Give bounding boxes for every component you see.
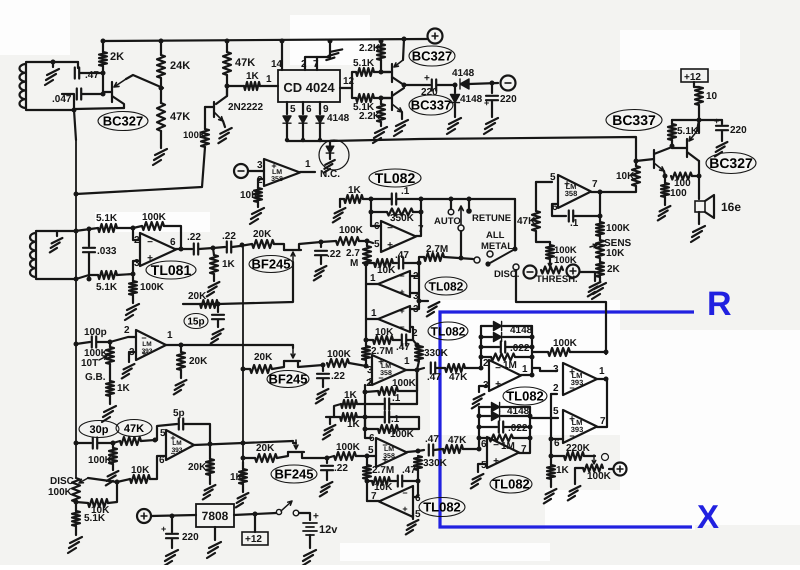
label BC337 Q4 [409,95,453,115]
wire [357,403,365,405]
wire [580,272,595,281]
wire [479,386,489,392]
wire [160,78,162,103]
svg-text:100K: 100K [88,455,113,466]
svg-text:5p: 5p [173,408,185,419]
resistor 10K [374,259,393,267]
capacitor .1 [569,211,573,222]
svg-text:1K: 1K [117,383,131,394]
svg-text:20K: 20K [188,462,207,473]
wire comparator output rail [597,380,607,427]
junction [74,500,79,505]
terminal + [614,463,627,476]
resistor 350K [387,209,413,216]
wire left vertical bus [75,140,77,478]
svg-text:1K: 1K [344,390,358,401]
wire audio feed to amp [330,137,636,161]
junction [364,262,369,267]
wire [226,75,228,96]
svg-text:2.2K: 2.2K [359,43,381,54]
resistor 5.1K [356,68,374,76]
wire [329,417,331,424]
junction [241,367,246,372]
wire [514,199,516,247]
svg-text:TL081: TL081 [151,262,192,278]
svg-text:358: 358 [565,189,578,198]
ground [472,394,485,408]
svg-text:2: 2 [301,59,307,70]
wire [478,407,480,449]
wire [334,404,341,417]
svg-text:7: 7 [592,179,598,190]
svg-text:20K: 20K [254,352,273,363]
wire [326,471,328,480]
svg-text:CD 4024: CD 4024 [283,80,335,95]
terminal circle [602,454,609,461]
wire to comparator rail [516,270,606,354]
wire to LM393 [530,417,558,419]
svg-text:BC327: BC327 [709,155,753,171]
resistor 5.1K [72,511,80,526]
wire [243,457,255,459]
wire [463,448,479,450]
wire [419,257,424,263]
wire [366,339,373,341]
junction [402,37,407,42]
wire [531,326,533,375]
junction [530,345,535,350]
svg-text:LM: LM [381,363,391,370]
wire [397,198,421,200]
wire [321,241,336,242]
diode 4148 [451,95,460,103]
wire [599,258,601,262]
diode 4148 [494,322,502,331]
label TL082 ellipse [425,277,467,295]
wire [234,513,276,515]
junction [241,441,246,446]
IC CD4024 [278,70,340,102]
wire [160,41,162,55]
wire [141,440,155,441]
resistor 47K [120,437,141,445]
wire [551,438,563,440]
junction [318,138,322,142]
svg-text:3: 3 [134,258,140,269]
junction [379,70,384,75]
svg-text:+12: +12 [245,534,262,545]
junction bus row1 [240,243,245,248]
circled diode [319,140,349,170]
resistor 100K [327,359,349,367]
junction [87,277,92,282]
ground [715,142,728,156]
svg-text:+: + [142,349,147,358]
wire [319,124,321,141]
capacitor .47 [398,476,402,487]
wire [600,186,636,192]
svg-text:+: + [714,116,719,126]
wire [183,303,200,305]
transistor Q3 BC327 [391,64,393,82]
wire [570,351,606,353]
junction [379,39,384,44]
wire [437,84,455,86]
svg-text:5: 5 [368,445,374,456]
terminal battery + [428,29,443,44]
svg-text:.47: .47 [396,342,410,353]
junction [402,83,407,88]
svg-text:1: 1 [266,74,272,85]
capacitor .022 [501,342,505,353]
capacitor 5p [179,419,183,430]
svg-text:.22: .22 [327,249,341,260]
svg-text:100K: 100K [606,223,631,234]
capacitor 220uF [166,534,178,538]
junction [225,39,230,44]
junction [131,272,136,277]
junction [416,449,421,454]
svg-text:G.B.: G.B. [85,372,106,383]
resistor 20K [255,454,277,462]
terminal THRESH + [567,265,580,278]
svg-text:5: 5 [290,104,296,115]
capacitor .033 [83,248,95,252]
wire pin5 [286,102,288,114]
junction [477,436,482,441]
junction [325,456,330,461]
svg-text:−: − [147,237,153,248]
wire [371,199,381,226]
svg-text:47K: 47K [448,435,467,446]
junction [153,438,158,443]
svg-text:METAL: METAL [481,241,513,252]
svg-text:+: + [313,511,319,522]
wire [112,464,114,470]
wire [599,236,601,240]
terminal THRESH - [524,266,537,279]
svg-text:TL082: TL082 [506,389,544,404]
wire [340,198,344,200]
resistor 1K [547,465,555,479]
svg-text:100K: 100K [48,487,73,498]
ground [153,149,167,165]
wire [171,516,173,532]
wire [381,71,392,73]
wire right rail [418,263,420,301]
svg-text:1: 1 [371,308,377,319]
resistor 47K [157,103,165,131]
junction [530,335,535,340]
junction [663,174,668,179]
wire [366,283,378,285]
wire [204,107,206,129]
wire [194,443,243,445]
op-amp U2A LM358 [264,159,300,186]
svg-text:5.1K: 5.1K [96,213,118,224]
junction [365,454,370,459]
wire [609,468,613,470]
wire [535,182,537,211]
svg-text:1: 1 [305,159,311,170]
wire [329,154,331,159]
ground [320,482,333,496]
wire [454,104,456,117]
ground [164,550,178,566]
wire [380,122,382,126]
wire [636,159,654,161]
capacitor 220uF [716,126,728,130]
svg-text:−: − [495,363,501,374]
wire [664,197,666,205]
junction [101,92,106,97]
capacitor .22 [194,244,198,255]
ground [102,406,116,422]
wire [597,378,606,380]
junction [477,425,482,430]
ground [471,474,484,488]
potentiometer 100K [583,465,603,472]
wire [418,450,424,451]
svg-text:BF245: BF245 [268,372,307,387]
junction [363,427,368,432]
svg-text:TL082: TL082 [423,500,461,515]
resistor 47K [445,364,465,372]
capacitor .22 [317,374,329,378]
resistor 100K [142,222,164,230]
wire [367,500,379,502]
wire [479,437,489,439]
wire [694,82,699,87]
wire [132,295,134,303]
wire [286,124,288,141]
wire pins 2-7 strap [305,57,317,70]
junction [604,350,609,355]
wire [410,292,419,294]
wire [175,248,192,250]
wire [133,261,140,274]
label BF245 ellipse Q5 [249,256,293,273]
ground [691,226,705,242]
svg-text:BC327: BC327 [103,114,143,129]
wire [359,240,367,242]
wire [532,351,548,353]
wire [349,363,366,366]
wire [403,39,404,60]
wire [506,346,532,348]
op-amp U8B TL082 [489,360,521,391]
wire [322,379,324,387]
terminal - [234,164,248,178]
svg-text:100K: 100K [587,471,612,482]
svg-text:+12: +12 [684,72,701,83]
svg-text:X: X [697,498,719,535]
svg-text:2: 2 [124,325,130,336]
wire [365,429,371,438]
svg-text:ALL: ALL [486,230,505,241]
svg-text:BC337: BC337 [612,112,656,128]
wire [82,93,104,95]
svg-text:2N2222: 2N2222 [228,102,263,113]
junction [365,479,370,484]
svg-text:1: 1 [599,366,605,377]
junction [364,338,369,343]
resistor 2K [99,52,107,66]
op-amp U4A TL082 [381,221,416,252]
junction [364,364,369,369]
ground [323,425,336,439]
label 15p ellipse [184,314,208,329]
svg-text:LM: LM [272,169,282,176]
svg-text:100K: 100K [327,349,352,360]
switch contact [474,257,480,263]
svg-text:4148: 4148 [452,68,475,79]
svg-text:+: + [399,306,404,316]
wire [89,274,98,276]
wire [478,464,487,472]
wire [242,484,244,492]
coil L2 RX [36,231,75,279]
wire [98,442,113,444]
junction [530,373,535,378]
wire [552,204,566,216]
potentiometer DISC 100K [72,478,80,502]
resistor 47K [443,445,463,453]
svg-text:220: 220 [500,94,517,105]
op-amp U9B LM393 [563,410,597,443]
junction [115,480,120,485]
svg-text:4148: 4148 [510,325,533,336]
junction [417,299,422,304]
wire [575,468,583,484]
resistor 10K [130,475,150,483]
ground [174,380,187,394]
wire [334,416,340,418]
svg-text:.22: .22 [334,463,348,474]
svg-text:7: 7 [600,416,606,427]
capacitor 15p [212,315,224,319]
junction [363,415,368,420]
wire [515,356,532,358]
svg-text:−: − [399,271,404,281]
switch SW power [276,509,281,514]
resistor 100K feedback upper [378,387,398,395]
op-amp U6A LM358 [372,355,406,385]
wire [390,480,396,482]
svg-text:100p: 100p [84,327,107,338]
wire [501,406,530,408]
wire [469,83,498,84]
wire [164,226,181,249]
junction [604,377,609,382]
wire [697,120,699,131]
wire [549,242,551,245]
wire [80,72,104,74]
op-amp U7A TL082 mirrored [378,306,410,332]
resistor 20K [250,365,272,373]
resistor 330K R-row [415,346,423,361]
wire [180,370,182,378]
svg-text:−: − [171,449,176,458]
junction [108,340,113,345]
wire [671,120,673,124]
svg-text:−: − [402,488,407,498]
wire [52,62,54,67]
wire left bus upper [74,110,76,140]
wire [117,479,130,482]
svg-text:2.7M: 2.7M [372,465,394,476]
diode 4148 [460,79,469,89]
wire [150,456,166,479]
transistor Q2 2N2222 [213,102,215,117]
wire [664,171,665,176]
wire [75,526,77,535]
svg-text:1M: 1M [501,441,515,452]
resistor 47K [532,211,540,231]
resistor 20K [252,240,274,248]
wire [501,415,530,417]
svg-text:5.1K: 5.1K [96,282,118,293]
ground [218,128,231,143]
junction [365,239,370,244]
capacitor .47 [431,363,435,374]
wire [672,147,687,149]
op-amp U3 TL081 [140,233,176,266]
wire [692,175,699,177]
wire [416,199,421,236]
ground [592,283,606,299]
wire [292,345,294,348]
wire [591,191,600,193]
wire [75,228,98,231]
junction [179,247,184,252]
svg-text:1: 1 [167,330,173,341]
ground [394,120,408,136]
junction [211,246,216,251]
wire [217,304,219,312]
resistor 5.1K [668,124,676,140]
svg-text:.47: .47 [427,372,441,383]
wire [410,301,419,309]
junction [416,479,421,484]
resistor 1M [491,354,515,361]
wire [326,458,328,463]
svg-text:BC337: BC337 [411,98,451,113]
op-amp U9A LM393 [563,363,597,395]
diode 4148 [492,403,500,412]
wire [521,374,532,376]
wire [404,84,430,86]
wire [404,262,419,264]
svg-text:10K: 10K [377,265,396,276]
svg-text:2K: 2K [110,51,124,63]
junction [131,226,136,231]
ground [236,493,249,507]
junction [417,261,422,266]
terminal supply + [137,509,151,523]
wire [365,391,378,392]
svg-text:10K: 10K [240,190,259,201]
ground [333,208,346,222]
wire [117,274,133,275]
wire [481,325,492,327]
wire [293,442,296,444]
wire [380,41,382,44]
wire [465,367,481,369]
wire [217,320,219,327]
svg-text:20K: 20K [253,229,272,240]
wire [364,385,366,429]
